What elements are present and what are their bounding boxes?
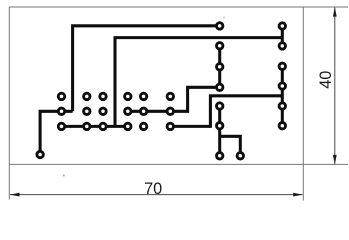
pad P27 (col x282): [279, 43, 285, 49]
pad P1 (grid r1 c1): [58, 93, 64, 99]
wire: vertical x72.6 up to top trace right to pad(220,26): [73, 26, 220, 112]
pad P12 (grid r2 c6): [167, 108, 173, 114]
pad P22 (col x220): [217, 84, 223, 90]
arrowhead left of 70 dimension: [10, 193, 20, 197]
wire: x282 column joining pads y26-y46: [281, 26, 284, 46]
pad P30 (col x282): [279, 103, 285, 109]
pad P8 (grid r2 c2): [84, 108, 90, 114]
pad P26 (col x282): [279, 23, 285, 29]
pad P11 (grid r2 c5): [140, 108, 146, 114]
dimension line 40 (right): [334, 7, 336, 164]
pad P24 (col x220): [217, 123, 223, 129]
pad P21 (col x220): [217, 64, 223, 70]
wire: row2 right pads(127.7..170.2) jog up to pad(220,87): [128, 87, 220, 111]
wire: left L-trace pad(40,154) up and right to pad(87,111): [40, 111, 73, 155]
pad P9 (grid r2 c3): [100, 108, 106, 114]
pad P25 (col x220): [217, 153, 223, 159]
pad P10 (grid r2 c4): [125, 108, 131, 114]
pad P14 (grid r3 c2): [84, 123, 90, 129]
wire: vertical x114.8 from row3 up, right along y37.6 to column x282: [115, 38, 282, 127]
dimension line 70 (bottom): [10, 194, 303, 196]
pad P13 (grid r3 c1): [58, 123, 64, 129]
pad P17 (grid r3 c5): [140, 123, 146, 129]
board outline left edge / extension line: [8, 7, 10, 200]
pad P4 (grid r1 c4): [125, 93, 131, 99]
pad P19 (col x220): [217, 23, 223, 29]
pad P5 (grid r1 c5): [140, 93, 146, 99]
wire: x220 column pads y106-y155.8: [218, 106, 221, 156]
speck artifact: [63, 175, 65, 177]
pad P2 (grid r1 c2): [84, 93, 90, 99]
pad P31 (col x282): [279, 123, 285, 129]
pad P29 (col x282): [279, 83, 285, 89]
board outline bottom edge / extension line: [9, 163, 348, 165]
arrowhead bottom of 40 dimension: [333, 155, 337, 165]
wire: row3 horizontal pads(61.5..127.7): [62, 125, 128, 128]
pad P18 (grid r3 c6): [167, 123, 173, 129]
pad P3 (grid r1 c3): [100, 93, 106, 99]
arrowhead right of 70 dimension: [293, 193, 303, 197]
svg-text:70: 70: [144, 180, 162, 198]
pad P28 (col x282): [279, 63, 285, 69]
pad P16 (grid r3 c4): [125, 123, 131, 129]
pad P20 (col x220): [217, 43, 223, 49]
speck artifact: [223, 17, 225, 19]
wire: branch y136 right and down to pad(240,155.8): [220, 136, 241, 156]
board outline right edge / extension line: [302, 7, 304, 201]
wire: row3 pad(170,126) jog up via (210,96) to column x282: [170, 96, 282, 127]
pad P7 (grid r2 c1): [58, 108, 64, 114]
svg-text:40: 40: [317, 71, 335, 89]
pad P15 (grid r3 c3): [100, 123, 106, 129]
pad P33: [37, 151, 43, 157]
board outline top edge / extension line: [9, 6, 348, 8]
wire: x282 column joining pads y66-y126: [281, 66, 284, 125]
wire: x220 column joining pads y46-y66.8-y87.3: [218, 46, 221, 88]
arrowhead top of 40 dimension: [333, 7, 337, 17]
pad P6 (grid r1 c6): [167, 93, 173, 99]
pad P32: [237, 153, 243, 159]
pad P23 (col x220): [217, 103, 223, 109]
